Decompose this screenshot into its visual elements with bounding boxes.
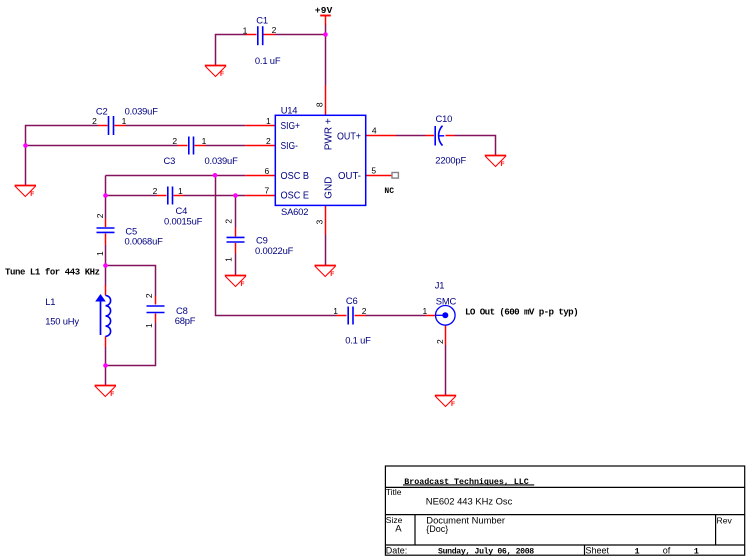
wire C6 right to J1 [366,315,426,317]
capacitor C9 [223,219,293,262]
ground tank [95,386,116,399]
svg-text:150 uHy: 150 uHy [45,316,79,327]
wire J1 pin2 to ground [445,345,447,396]
wire C8 bottom to node E [106,323,156,366]
svg-text:F: F [451,401,455,408]
svg-text:Sheet: Sheet [586,545,610,555]
svg-text:3: 3 [315,219,325,224]
svg-text:2: 2 [95,213,105,218]
svg-text:0.039uF: 0.039uF [205,155,239,166]
svg-text:C2: C2 [96,106,108,117]
svg-text:C6: C6 [346,295,358,306]
svg-text:2: 2 [153,186,158,196]
capacitor C4 pin stubs [157,195,167,197]
svg-text:PWR +: PWR + [324,118,335,150]
svg-text:0.039uF: 0.039uF [125,106,159,117]
wire C9 bottom to ground [235,254,237,276]
svg-text:1: 1 [243,26,248,36]
svg-text:SIG+: SIG+ [281,121,301,132]
ground C1 [205,66,226,79]
svg-text:1: 1 [144,323,154,328]
svg-text:F: F [330,271,334,278]
capacitor C2 pin stubs [98,125,108,127]
capacitor C2 [92,106,158,136]
junction node B [103,193,108,198]
svg-text:Rev: Rev [717,515,733,525]
wire pin7 to node C [236,195,246,197]
svg-text:Broadcast Techniques, LLC: Broadcast Techniques, LLC [404,477,528,487]
title block frame [385,466,744,555]
svg-text:SMC: SMC [436,296,457,307]
capacitor C3 pin stubs [178,145,188,147]
wire node D to C8 top [106,266,156,297]
svg-text:U14: U14 [281,105,298,116]
capacitor C6 [333,295,371,346]
svg-text:8: 8 [314,102,324,107]
inductor L1 [45,294,110,336]
svg-text:LO Out (600 mV p-p typ): LO Out (600 mV p-p typ) [465,306,578,317]
ground C2 C3 node [15,186,36,199]
wire SIG+ net pin1 to C2 [126,125,246,127]
svg-text:of: of [663,545,671,555]
wire C10 right to ground [455,136,496,156]
connector J1 [423,280,457,344]
inductor L1 pin stubs [105,285,107,296]
wire C4 left to node B [106,195,157,197]
svg-text:1: 1 [178,186,183,196]
svg-text:SA602: SA602 [281,206,308,217]
wire node A down to ground [25,146,27,186]
svg-text:F: F [110,391,114,398]
svg-text:2: 2 [92,116,97,126]
svg-text:1: 1 [333,306,338,316]
capacitor C5 [95,213,163,256]
wire node C to C4 right [184,195,236,197]
svg-text:C1: C1 [256,14,268,25]
svg-text:C3: C3 [164,155,176,166]
svg-text:GND: GND [324,177,335,199]
svg-text:J1: J1 [435,280,445,291]
svg-text:0.0022uF: 0.0022uF [255,245,294,256]
wire node E to ground [105,366,107,386]
svg-text:1: 1 [694,546,699,556]
wire L1 top [105,266,107,286]
svg-text:C10: C10 [436,113,453,124]
svg-text:2: 2 [223,219,233,224]
op-amp U14 SA602 body [265,102,377,224]
svg-text:0.1 uF: 0.1 uF [345,334,371,345]
svg-text:A: A [395,523,402,534]
junction node D [103,263,108,268]
svg-text:NC: NC [384,187,394,196]
svg-text:Date:: Date: [386,545,408,555]
ground pin3 [315,266,336,279]
op-amp U14 pin stubs pins 1 2 6 7 8 3 4 5 [245,125,275,127]
svg-text:6: 6 [265,166,270,176]
svg-text:1: 1 [95,251,105,256]
svg-text:2: 2 [266,136,271,146]
wire OSC B net pin6 horizontal [106,175,246,177]
junction output tap [213,173,218,178]
no-connect marker pin5 [384,173,398,197]
svg-text:4: 4 [372,126,377,136]
svg-text:{Doc}: {Doc} [426,524,448,534]
capacitor C8 pin stubs [155,296,157,305]
svg-text:OSC B: OSC B [281,171,310,182]
wire C1 right to +9V junction [275,34,326,36]
svg-text:1: 1 [122,116,127,126]
svg-text:2: 2 [144,293,154,298]
wire C3 right to pin2 [206,145,246,147]
wire C3 left to node A [26,145,178,147]
svg-text:1: 1 [635,546,640,556]
wire C1 left to ground [216,35,247,66]
ground C10 [485,156,506,169]
capacitor C1 [243,14,281,66]
svg-text:OUT+: OUT+ [337,132,361,143]
svg-text:68pF: 68pF [175,315,196,326]
connector J1 pin stubs [426,315,437,317]
ground J1 [435,396,456,409]
svg-text:F: F [241,281,245,288]
svg-text:2200pF: 2200pF [435,154,466,165]
wire +9V vertical to pin8 [325,25,327,86]
junction node C [233,193,238,198]
svg-text:1: 1 [223,257,233,262]
svg-text:7: 7 [265,186,270,196]
svg-text:+9V: +9V [315,5,333,16]
wire pin4 to C10 [396,135,426,137]
svg-text:F: F [220,71,224,78]
capacitor C8 [144,293,196,328]
capacitor C6 pin stubs [337,315,347,317]
wire output tap vertical down and right to C6 [216,176,337,316]
svg-text:1: 1 [423,306,428,316]
svg-text:OUT-: OUT- [338,171,361,182]
capacitor C9 pin stubs [235,228,237,237]
svg-text:0.0068uF: 0.0068uF [125,235,164,246]
junction +9V C1 [323,32,328,37]
wire C2 left down to node A [26,126,99,146]
svg-text:OSC E: OSC E [281,190,310,201]
svg-text:L1: L1 [45,296,55,307]
capacitor C1 pin stubs [246,34,257,36]
wire C5 bottom to node D [105,245,107,266]
svg-text:2: 2 [362,306,367,316]
svg-text:F: F [501,161,505,168]
junction node E [103,363,108,368]
capacitor C10 [435,113,466,165]
svg-text:0.0015uF: 0.0015uF [164,216,203,227]
svg-text:SIG-: SIG- [281,141,299,152]
capacitor C3 [164,136,239,166]
svg-text:2: 2 [172,136,177,146]
svg-text:Tune L1 for 443 KHz: Tune L1 for 443 KHz [5,268,100,278]
svg-text:F: F [30,191,34,198]
svg-text:Title: Title [386,487,402,497]
svg-text:1: 1 [202,136,207,146]
capacitor C10 pin stubs [426,135,435,137]
wire node C down to C9 [235,196,237,228]
capacitor C4 [153,186,203,226]
svg-text:NE602 443 KHz Osc: NE602 443 KHz Osc [426,496,513,507]
svg-text:2: 2 [272,25,277,35]
wire OSC B corner down to node B [105,176,107,196]
wire node B down to C5 [105,196,107,219]
power +9V symbol [315,5,333,25]
svg-text:Sunday, July 06, 2008: Sunday, July 06, 2008 [438,546,534,556]
ground C9 [225,276,246,289]
wire L1 bottom to node E [105,347,107,365]
svg-text:5: 5 [371,166,376,176]
capacitor C5 pin stubs [105,219,107,228]
svg-text:2: 2 [435,339,445,344]
svg-text:1: 1 [266,116,271,126]
junction node A [23,143,28,148]
wire pin3 to ground [325,235,327,266]
svg-text:0.1 uF: 0.1 uF [255,55,281,66]
